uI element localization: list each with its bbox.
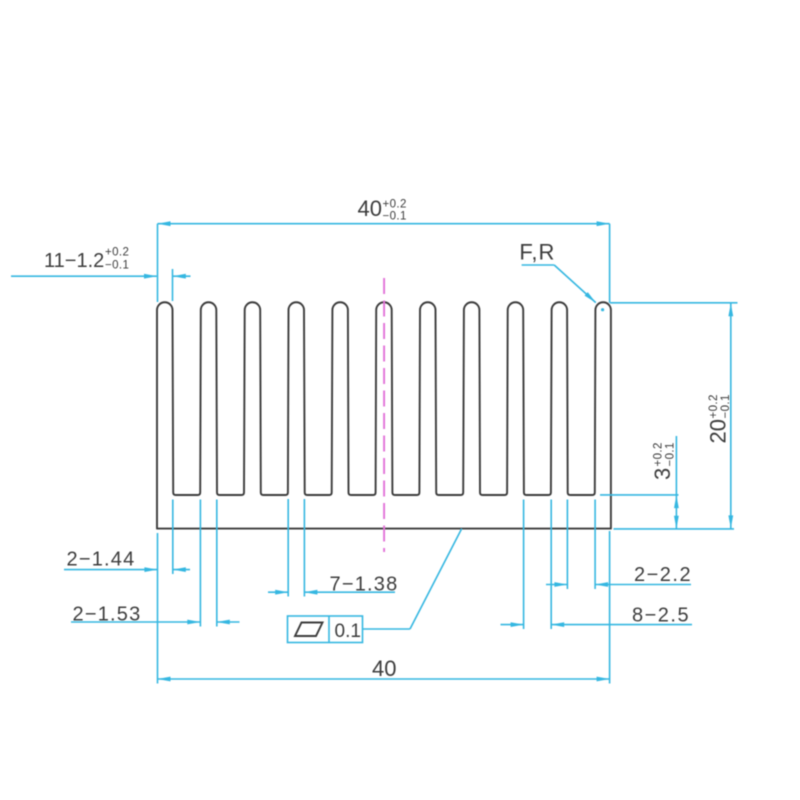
svg-text:2−1.53: 2−1.53: [73, 604, 142, 626]
svg-text:−0.1: −0.1: [720, 394, 732, 418]
svg-text:+0.2: +0.2: [105, 247, 129, 259]
svg-text:2−1.44: 2−1.44: [67, 549, 136, 571]
svg-text:7−1.38: 7−1.38: [330, 574, 399, 596]
svg-text:2−2.2: 2−2.2: [634, 564, 692, 586]
svg-text:40: 40: [372, 656, 396, 681]
svg-text:8−2.5: 8−2.5: [632, 605, 690, 627]
svg-text:−0.1: −0.1: [664, 442, 676, 466]
svg-text:+0.2: +0.2: [383, 198, 407, 210]
svg-text:11−1.2: 11−1.2: [44, 250, 104, 272]
svg-text:+0.2: +0.2: [708, 394, 720, 418]
svg-text:+0.2: +0.2: [652, 442, 664, 466]
svg-text:0.1: 0.1: [335, 621, 361, 642]
svg-text:20: 20: [706, 419, 731, 443]
svg-text:−0.1: −0.1: [383, 211, 407, 223]
svg-text:−0.1: −0.1: [105, 260, 129, 272]
svg-text:3: 3: [650, 468, 675, 480]
svg-text:F,R: F,R: [519, 240, 555, 265]
svg-text:40: 40: [358, 196, 382, 221]
